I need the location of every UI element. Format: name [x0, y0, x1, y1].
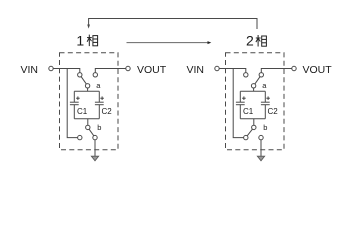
svg-text:2: 2: [246, 32, 254, 48]
wire VIN1 branch down to S2 left throw: [67, 69, 77, 138]
phase sequence bracket (2相 back to 1相): [89, 19, 257, 30]
wire node a to capacitor top rail: [87, 88, 89, 91]
wire capacitor top rail phase2: [240, 90, 265, 92]
switch S4 left throw contact: [244, 135, 248, 139]
wire VIN1 to switch S1 left throw: [53, 69, 80, 73]
label kanji phase (2相) drawn as strokes: [256, 35, 267, 47]
svg-text:C1: C1: [77, 107, 88, 116]
node a (phase1): [85, 84, 89, 88]
wire bottom rail to node b: [87, 119, 89, 126]
switch S1 arm (closed to VIN side): [81, 77, 86, 84]
wire node a to capacitor top rail phase2: [253, 88, 255, 91]
ground arrow phase1: [91, 156, 98, 161]
terminal VOUT1: [126, 66, 130, 70]
terminal VIN2: [215, 66, 219, 70]
capacitor C2 phase2: [261, 91, 270, 118]
capacitor C1 phase2: [236, 91, 245, 118]
svg-text:VIN: VIN: [186, 64, 204, 76]
node b (phase1): [86, 125, 90, 129]
wire S1 right throw to VOUT1: [95, 69, 126, 73]
svg-text:C1: C1: [243, 107, 254, 116]
wire bottom rail to node b phase2: [253, 119, 255, 126]
arrowhead down at 1相: [87, 25, 90, 29]
wire S3 right throw to VOUT2: [261, 69, 292, 73]
switch S2 arm (closed to ground side): [89, 129, 94, 136]
svg-text:b: b: [263, 123, 267, 132]
C1 polarity plus: [76, 96, 80, 100]
dashed block boundary phase 1: [60, 53, 119, 150]
label kanji phase (1相) drawn as strokes: [87, 35, 98, 47]
svg-text:C2: C2: [268, 107, 279, 116]
C2 polarity plus: [100, 96, 104, 100]
wire capacitor top rail: [74, 90, 99, 92]
wire to ground phase2: [260, 140, 262, 157]
dashed block boundary phase 2: [226, 53, 285, 150]
svg-text:VIN: VIN: [20, 64, 38, 76]
wire capacitor bottom rail: [74, 118, 99, 120]
switch S3 left throw contact: [244, 73, 248, 77]
switch S3 right throw contact: [259, 73, 263, 77]
svg-text:VOUT: VOUT: [303, 64, 333, 76]
switch S1 right throw contact: [93, 73, 97, 77]
svg-text:C2: C2: [102, 107, 113, 116]
switch S1 left throw contact: [78, 73, 82, 77]
wire VIN2 branch down to S4 left throw: [233, 69, 243, 138]
switch S3 arm (closed to VOUT side): [255, 77, 260, 84]
switch S4 arm (closed to VIN side): [247, 129, 252, 136]
svg-text:b: b: [97, 123, 101, 132]
C2 polarity plus phase2: [266, 96, 270, 100]
terminal VIN1: [49, 66, 53, 70]
switch S2 left throw contact: [78, 135, 82, 139]
switch S4 right throw contact (to ground): [259, 135, 263, 139]
ground arrow phase2: [257, 156, 264, 161]
terminal VOUT2: [292, 66, 296, 70]
wire to ground phase1: [94, 140, 96, 157]
switch S2 right throw contact (to ground): [93, 135, 97, 139]
node b (phase2): [252, 125, 256, 129]
arrow 1相 to 2相: [127, 42, 209, 44]
node a (phase2): [251, 84, 255, 88]
svg-text:1: 1: [76, 32, 84, 48]
svg-text:VOUT: VOUT: [137, 64, 167, 76]
wire VIN2 to switch S3 left throw: [219, 69, 246, 73]
C1 polarity plus phase2: [242, 96, 246, 100]
capacitor C2: [95, 91, 104, 118]
capacitor C1: [70, 91, 79, 118]
wire capacitor bottom rail phase2: [240, 118, 265, 120]
